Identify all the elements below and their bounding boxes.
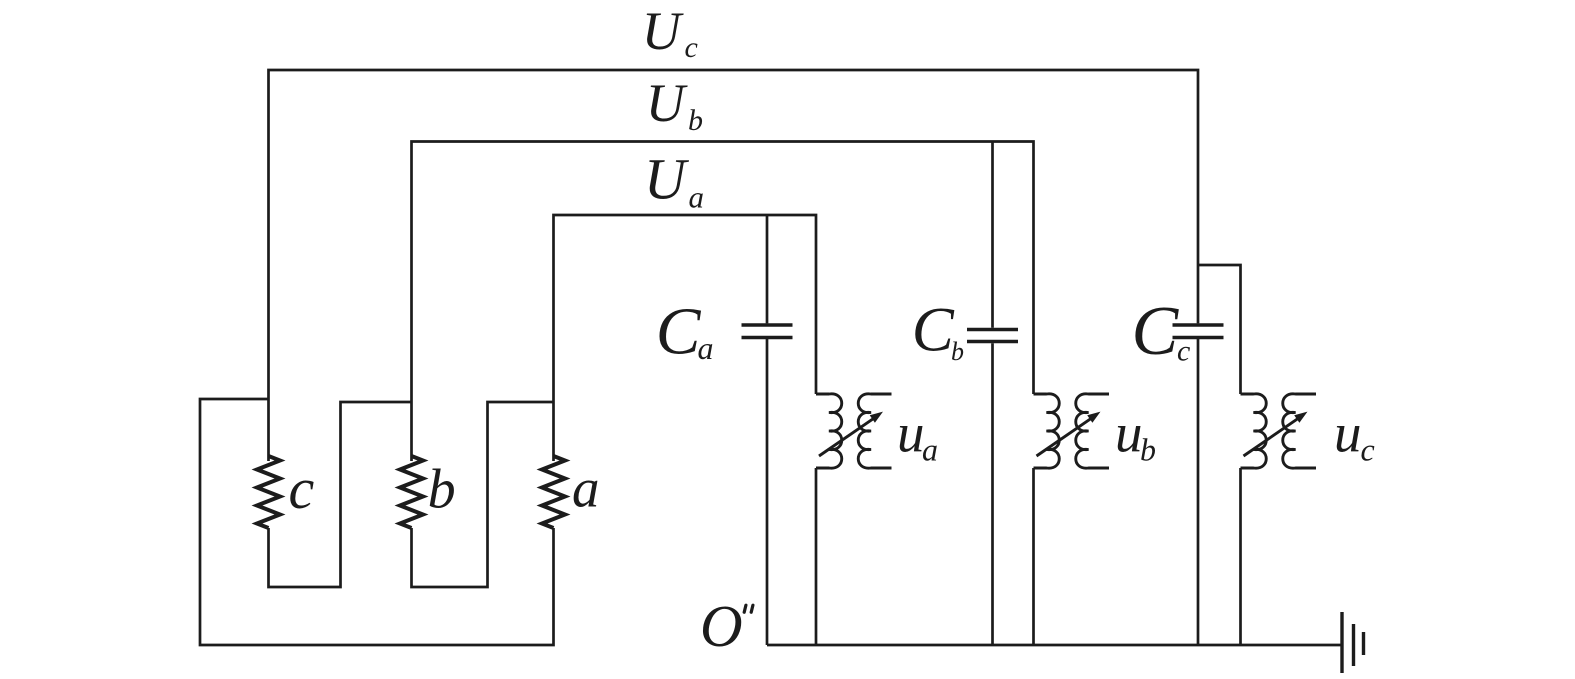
wire U_b horizontal top line (412, 142, 1034, 462)
wire below inductor ua to bottom rail (815, 468, 818, 645)
wire below Cc to bottom rail (1197, 339, 1200, 645)
svg-text:u: u (1334, 403, 1362, 464)
inductor uc (variable coupled winding) (1241, 394, 1317, 468)
wire below Cb to bottom rail (991, 343, 994, 645)
ground (1342, 612, 1364, 673)
svg-text:O: O (700, 593, 743, 659)
capacitor Ca (742, 325, 793, 338)
wire U_c horizontal top line (269, 70, 1199, 461)
wire jog from Cc wire to inductor uc branch (1198, 265, 1241, 394)
svg-text:b: b (951, 337, 964, 366)
svg-text:a: a (922, 432, 938, 468)
svg-text:b: b (1140, 432, 1156, 468)
svg-text:a: a (689, 180, 705, 215)
svg-text:u: u (897, 403, 925, 464)
svg-text:b: b (428, 459, 456, 521)
svg-text:a: a (572, 458, 600, 519)
wire bottom rail O'' to ground (767, 644, 1342, 647)
svg-text:C: C (1132, 293, 1180, 370)
wire capacitor Cb branch vertical (991, 142, 994, 328)
capacitor Cb (967, 330, 1018, 342)
svg-text:u: u (1115, 403, 1143, 464)
inductor ua (variable coupled winding) (816, 394, 892, 468)
svg-text:b: b (688, 104, 703, 137)
svg-text:C: C (912, 294, 955, 364)
wire U_a horizontal top line (554, 215, 817, 461)
wire capacitor Ca branch vertical (766, 215, 769, 323)
resistor b (400, 456, 423, 528)
svg-text:c: c (1361, 432, 1375, 468)
svg-text:c: c (1177, 335, 1190, 368)
svg-text:c: c (289, 456, 315, 521)
wire below inductor uc to bottom rail (1239, 468, 1242, 645)
wire below Ca to bottom rail (766, 339, 769, 645)
wire loop: resistor c bottom to resistor b top (269, 402, 412, 587)
wire below inductor ub to bottom rail (1032, 468, 1035, 645)
svg-text:a: a (698, 330, 714, 366)
resistor a (542, 456, 565, 528)
svg-text:C: C (656, 295, 702, 369)
capacitor Cc (1173, 325, 1224, 338)
svg-text:U: U (644, 147, 690, 212)
wire left outer loop: resistor a bottom to node of resistor c top (200, 399, 554, 645)
wire loop: resistor b bottom to resistor a top (412, 402, 554, 587)
svg-text:c: c (685, 31, 698, 64)
svg-text:U: U (642, 1, 684, 61)
resistor c (257, 456, 280, 528)
inductor ub (variable coupled winding) (1034, 394, 1110, 468)
svg-text:U: U (646, 73, 688, 133)
